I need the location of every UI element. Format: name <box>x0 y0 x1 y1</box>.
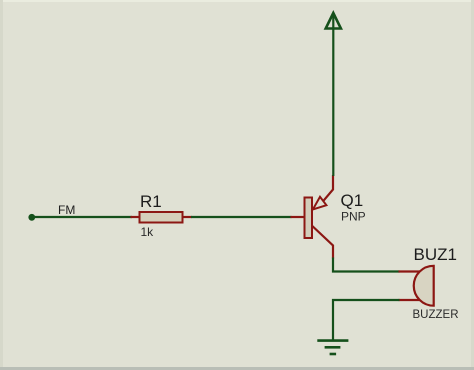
svg-text:PNP: PNP <box>341 210 366 224</box>
wire Q1 emitter to power <box>332 13 334 176</box>
resistor R1 pin left <box>131 216 141 218</box>
node FM terminal dot <box>28 214 35 221</box>
svg-text:BUZ1: BUZ1 <box>414 245 457 264</box>
svg-text:Q1: Q1 <box>341 191 364 210</box>
svg-text:1k: 1k <box>141 225 155 239</box>
wire BUZ1 bottom pin to ground <box>333 300 400 340</box>
svg-text:FM: FM <box>58 203 75 217</box>
transistor Q1 collector lead <box>312 226 333 259</box>
resistor R1 body <box>140 212 183 223</box>
wire R1 to Q1 base <box>191 216 292 218</box>
transistor Q1 emitter lead <box>323 175 333 201</box>
buzzer BUZ1 top pin <box>399 270 421 272</box>
wire FM to R1 <box>32 216 132 218</box>
ground symbol <box>317 341 348 354</box>
transistor Q1 emitter arrow <box>313 197 327 210</box>
resistor R1 pin right <box>183 216 193 218</box>
buzzer BUZ1 body <box>414 266 434 306</box>
transistor Q1 base bar <box>305 198 313 239</box>
wire Q1 collector to BUZ1 top pin <box>333 258 400 272</box>
transistor Q1 base pin <box>291 216 305 218</box>
buzzer BUZ1 bottom pin <box>399 299 421 301</box>
svg-text:R1: R1 <box>140 192 162 211</box>
power symbol arrow <box>326 13 341 29</box>
svg-text:BUZZER: BUZZER <box>413 309 459 321</box>
